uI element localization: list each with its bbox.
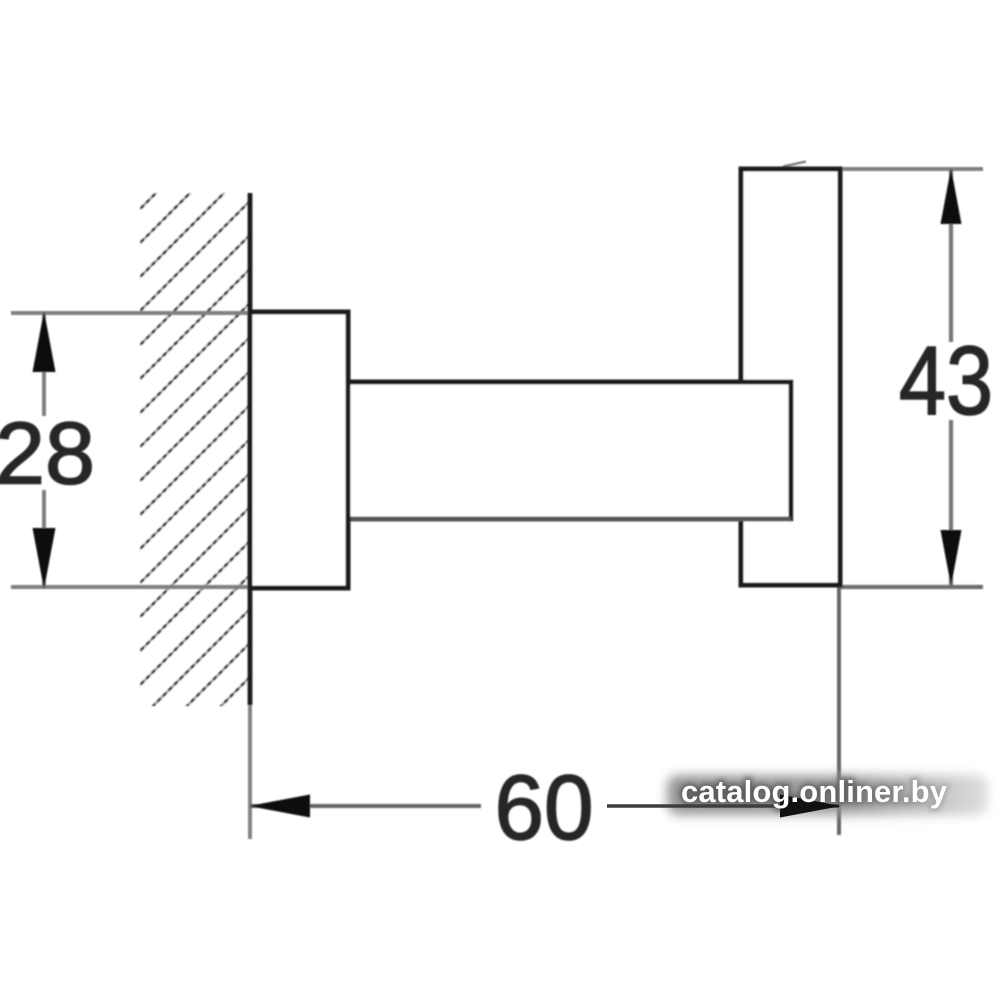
dim text 43 (899, 328, 993, 436)
wall hatching base (138, 99, 250, 789)
svg-text:60: 60 (494, 757, 593, 860)
svg-text:43: 43 (899, 328, 993, 436)
watermark letter glow (681, 774, 948, 809)
dim 60 line left segment (251, 804, 481, 808)
wall line (248, 193, 253, 705)
svg-text:catalog.onliner.by: catalog.onliner.by (681, 774, 948, 809)
dim 43 arrow down (941, 530, 962, 586)
end plate (741, 169, 840, 585)
svg-text:28: 28 (0, 403, 95, 502)
shaft bottom edge (lighter) (348, 517, 791, 522)
dim 28 top extension line (11, 311, 255, 315)
dim text 60 (494, 757, 593, 860)
dim 43 line upper segment (949, 169, 953, 342)
dim 28 line upper segment (42, 313, 46, 416)
dim 28 arrow down (33, 528, 56, 589)
dim 60 right extension line (837, 585, 841, 835)
dim 43 top extension line (841, 167, 983, 171)
dim 28 line lower segment (42, 490, 46, 587)
scan tick above end plate (783, 162, 806, 167)
dim text 28 (0, 403, 95, 502)
mounting plate (250, 312, 348, 588)
wall hatching grain (138, 99, 250, 789)
dim 43 arrow up (941, 168, 962, 224)
dim 60 arrow right (over watermark) (780, 795, 841, 818)
dim 60 left extension line (wall line continuation) (248, 700, 252, 839)
dim 60 arrow left (249, 795, 310, 818)
dim 28 bottom extension line (11, 585, 255, 589)
dim 28 arrow up (33, 311, 56, 372)
watermark glow band (667, 775, 988, 815)
dim 60 line right segment (607, 804, 839, 808)
dim 43 bottom extension line (841, 585, 983, 589)
shaft (348, 382, 791, 519)
dim 43 line lower segment (949, 420, 953, 586)
